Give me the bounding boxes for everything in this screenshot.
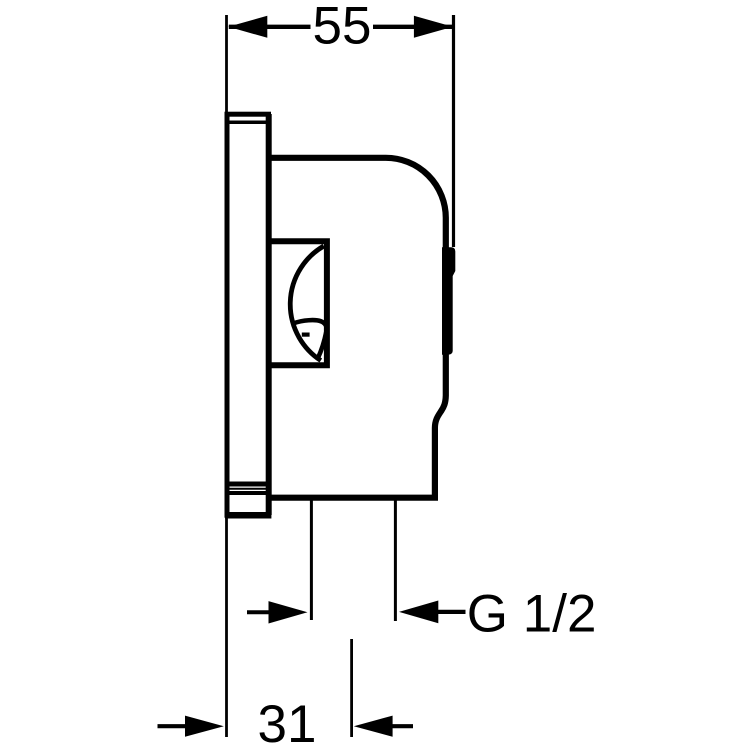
- wall plate bottom edge: [225, 512, 271, 519]
- G 1/2 arrow right tail: [438, 610, 466, 614]
- dimension line 55 right segment: [373, 25, 453, 29]
- svg-text:55: 55: [313, 0, 372, 56]
- arrowhead 55 left: [228, 16, 267, 38]
- supply pipe left edge: [310, 500, 313, 620]
- G 1/2 arrow left tail: [247, 610, 270, 614]
- pipe centerline: [350, 639, 353, 737]
- knob dome arc: [290, 246, 324, 361]
- extension line left (wall face): [225, 15, 228, 737]
- valve body outline: [266, 158, 446, 498]
- lever notch: [302, 333, 310, 337]
- arrowhead 31 left: [185, 716, 224, 737]
- supply pipe right edge: [394, 500, 397, 621]
- arrowhead 31 right: [354, 716, 393, 737]
- wall plate outer rectangle: [227, 114, 269, 515]
- arrowhead 55 right: [414, 16, 453, 38]
- dimension 31 left tail: [158, 724, 189, 728]
- wall plate right edge: [266, 114, 272, 515]
- svg-text:G 1/2: G 1/2: [467, 585, 597, 644]
- knob socket rectangle: [267, 241, 327, 365]
- dimension line 55 left segment: [229, 25, 311, 29]
- wall plate face line bottom 1: [230, 482, 267, 487]
- dimension 31 right tail: [390, 724, 413, 728]
- lever handle: [293, 320, 326, 358]
- wall plate face line bottom 2: [230, 488, 267, 490]
- extension line right (body front): [452, 15, 455, 247]
- wall plate face line bottom 3: [230, 491, 267, 495]
- trim ring edge on body front: [442, 247, 455, 354]
- G 1/2 arrowhead left: [269, 601, 308, 623]
- G 1/2 arrowhead right: [399, 601, 438, 624]
- svg-text:31: 31: [258, 695, 317, 751]
- wall plate face line top: [230, 121, 267, 125]
